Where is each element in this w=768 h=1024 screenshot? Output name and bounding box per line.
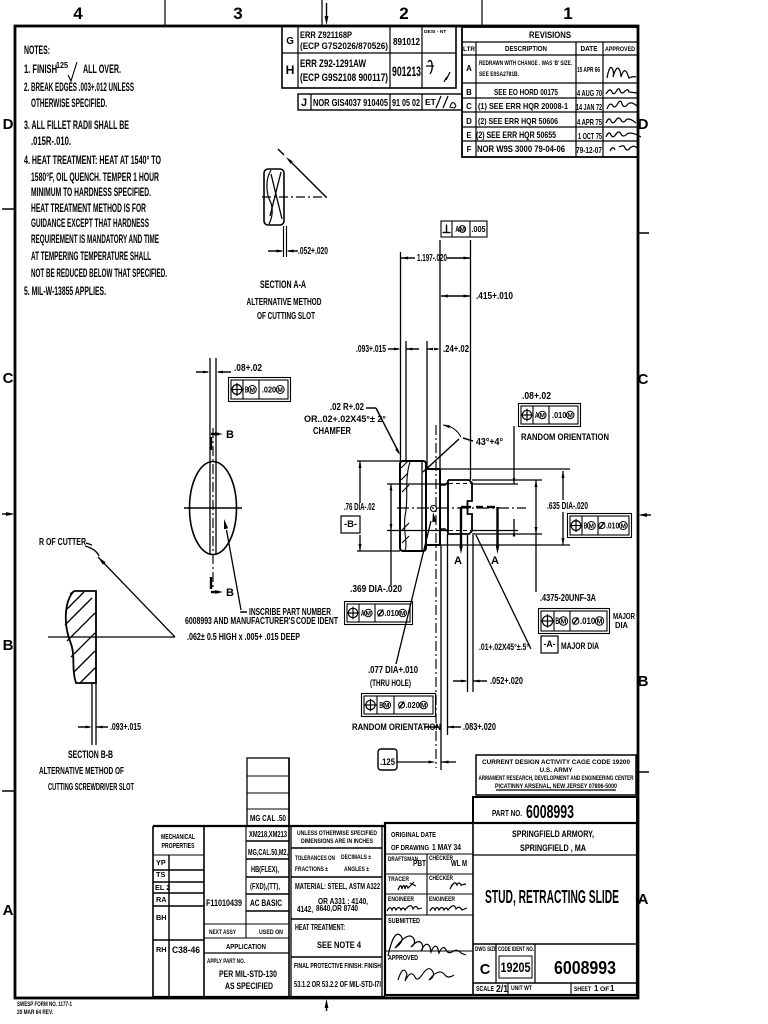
svg-text:.077 DIA+.010: .077 DIA+.010 (368, 665, 418, 676)
svg-text:APPLICATION: APPLICATION (226, 942, 266, 951)
svg-text:(FXD),(TT),: (FXD),(TT), (250, 881, 280, 891)
svg-text:DECIMALS ±: DECIMALS ± (341, 854, 371, 861)
svg-text:SEE EO HORD 00175: SEE EO HORD 00175 (494, 87, 558, 97)
svg-text:OR..02+.02X45°± 2°: OR..02+.02X45°± 2° (304, 414, 386, 424)
svg-text:(2) SEE ERR HQR 50655: (2) SEE ERR HQR 50655 (476, 130, 556, 140)
svg-text:.093+.015: .093+.015 (356, 344, 386, 355)
svg-text:SWESP FORM NO. 1177-1: SWESP FORM NO. 1177-1 (17, 1001, 72, 1008)
svg-text:B: B (584, 520, 588, 530)
svg-text:891012: 891012 (393, 37, 420, 48)
svg-text:1: 1 (563, 4, 572, 23)
svg-text:RANDOM ORIENTATION: RANDOM ORIENTATION (352, 722, 441, 732)
svg-text:2/1: 2/1 (496, 984, 508, 995)
svg-text:GUIDANCE EXCEPT THAT HARDNESS: GUIDANCE EXCEPT THAT HARDNESS (31, 217, 149, 230)
svg-text:.062± 0.5 HIGH x .005+ .015: .062± 0.5 HIGH x .005+ .015 DEEP (187, 632, 300, 643)
svg-text:B: B (226, 429, 234, 441)
svg-text:M: M (540, 412, 546, 419)
svg-text:MAJOR: MAJOR (613, 612, 635, 621)
svg-text:4 APR 75: 4 APR 75 (577, 117, 602, 127)
svg-text:ERR Z92-1291AW: ERR Z92-1291AW (300, 58, 366, 70)
svg-text:.052+.020: .052+.020 (490, 676, 523, 687)
svg-text:2: 2 (399, 4, 408, 23)
svg-text:ET: ET (425, 97, 437, 107)
svg-text:.01+.02X45°±.5°: .01+.02X45°±.5° (479, 642, 529, 652)
svg-text:53.1.2 OR 53.2.2 OF MIL-STD-I7: 53.1.2 OR 53.2.2 OF MIL-STD-I7I (294, 980, 381, 989)
svg-text:M: M (366, 610, 372, 617)
svg-text:.052+.020: .052+.020 (298, 246, 328, 257)
svg-text:MAJOR DIA: MAJOR DIA (561, 641, 599, 651)
svg-text:1. FINISH: 1. FINISH (24, 63, 57, 76)
svg-text:.02 R+.02: .02 R+.02 (330, 402, 364, 413)
svg-text:ARMAMENT RESEARCH, DEVELOPMENT: ARMAMENT RESEARCH, DEVELOPMENT AND ENGIN… (479, 775, 634, 782)
svg-text:4: 4 (73, 4, 83, 23)
svg-text:XM218,XM213: XM218,XM213 (249, 829, 287, 839)
svg-text:U.S. ARMY: U.S. ARMY (540, 767, 574, 774)
svg-text:M: M (400, 610, 406, 617)
svg-text:M: M (277, 387, 283, 394)
svg-text:DATE: DATE (581, 44, 598, 53)
svg-text:RH: RH (156, 945, 167, 954)
svg-text:PER MIL-STD-130: PER MIL-STD-130 (219, 969, 277, 979)
svg-text:.010: .010 (552, 410, 567, 420)
svg-text:MG CAL .50: MG CAL .50 (250, 813, 286, 823)
svg-text:CHAMFER: CHAMFER (313, 426, 351, 437)
svg-text:B: B (638, 673, 649, 690)
svg-text:19205: 19205 (501, 960, 531, 975)
svg-text:4. HEAT TREATMENT: HEAT AT 154: 4. HEAT TREATMENT: HEAT AT 1540° TO (24, 154, 161, 167)
svg-text:SECTION B-B: SECTION B-B (68, 749, 113, 761)
svg-text:FRACTIONS ±: FRACTIONS ± (295, 866, 328, 873)
svg-text:ENGINEER: ENGINEER (429, 896, 455, 903)
svg-text:NEXT ASSY: NEXT ASSY (209, 929, 236, 936)
svg-text:M: M (384, 702, 390, 709)
svg-text:RANDOM ORIENTATION: RANDOM ORIENTATION (521, 432, 609, 442)
svg-text:A: A (535, 410, 539, 420)
svg-text:J: J (301, 97, 307, 109)
svg-text:HEAT TREATMENT METHOD IS FOR: HEAT TREATMENT METHOD IS FOR (31, 202, 146, 215)
svg-text:TS: TS (156, 870, 165, 879)
svg-text:1: 1 (610, 984, 615, 993)
svg-text:AS SPECIFIED: AS SPECIFIED (225, 981, 273, 991)
svg-text:PICATINNY ARSENAL, NEW JERSEY: PICATINNY ARSENAL, NEW JERSEY 07806-5000 (495, 783, 617, 790)
svg-text:6008993: 6008993 (526, 801, 574, 822)
svg-text:ANGLES ±: ANGLES ± (344, 866, 369, 873)
svg-text:1: 1 (594, 984, 599, 993)
svg-text:CODE IDENT: CODE IDENT (296, 616, 338, 627)
svg-text:M: M (621, 523, 627, 530)
svg-text:.4375-20UNF-3A: .4375-20UNF-3A (540, 593, 596, 604)
svg-text:8640,OR 8740: 8640,OR 8740 (316, 903, 358, 913)
svg-text:UNLESS OTHERWISE SPECIFIED: UNLESS OTHERWISE SPECIFIED (297, 830, 377, 837)
svg-text:.093+.015: .093+.015 (110, 722, 141, 733)
svg-text:B: B (379, 700, 383, 710)
svg-text:SEE NOTE 4: SEE NOTE 4 (317, 940, 362, 950)
svg-text:6008993 AND MANUFACTURER'S: 6008993 AND MANUFACTURER'S (185, 616, 295, 627)
svg-text:.020: .020 (262, 384, 277, 394)
svg-text:YP: YP (156, 858, 166, 867)
svg-text:.005: .005 (471, 224, 486, 234)
svg-text:R OF CUTTER: R OF CUTTER (39, 537, 86, 548)
svg-text:USED ON: USED ON (259, 929, 283, 936)
svg-text:M: M (589, 523, 595, 530)
svg-text:.083+.020: .083+.020 (463, 722, 496, 733)
svg-text:D: D (466, 117, 472, 126)
svg-text:AT TEMPERING TEMPERATURE SHALL: AT TEMPERING TEMPERATURE SHALL (31, 250, 151, 263)
svg-text:B: B (3, 637, 14, 654)
svg-text:M: M (567, 412, 573, 419)
svg-text:.020: .020 (406, 700, 421, 710)
svg-text:ERR Z921168P: ERR Z921168P (300, 30, 352, 40)
svg-text:DESCRIPTION: DESCRIPTION (505, 44, 547, 53)
svg-text:C: C (638, 371, 649, 388)
svg-text:M: M (596, 616, 602, 625)
svg-text:MINIMUM TO HARDNESS SPECIFIED: MINIMUM TO HARDNESS SPECIFIED. (31, 186, 151, 199)
svg-text:F11010439: F11010439 (206, 898, 242, 908)
svg-text:CHECKER: CHECKER (429, 855, 453, 862)
svg-text:REQUIREMENT IS MANDATORY AND T: REQUIREMENT IS MANDATORY AND TIME (31, 233, 159, 246)
svg-text:2. BREAK EDGES .003+.012 UNLES: 2. BREAK EDGES .003+.012 UNLESS (24, 81, 134, 94)
svg-text:(2) SEE ERR HQR 50606: (2) SEE ERR HQR 50606 (478, 116, 558, 126)
svg-text:PART NO.: PART NO. (492, 808, 522, 818)
svg-text:-A-: -A- (544, 639, 556, 649)
svg-text:CURRENT DESIGN ACTIVITY CAGE C: CURRENT DESIGN ACTIVITY CAGE CODE 19200 (482, 759, 630, 766)
svg-text:APPLY PART NO.: APPLY PART NO. (207, 958, 245, 965)
svg-text:PROPERTIES: PROPERTIES (162, 841, 195, 850)
svg-text:AC BASIC: AC BASIC (250, 898, 282, 908)
svg-text:.010: .010 (385, 608, 400, 618)
svg-text:DESI - NT: DESI - NT (424, 29, 446, 35)
svg-text:.415+.010: .415+.010 (476, 291, 513, 302)
svg-text:A: A (638, 891, 649, 908)
svg-text:STUD, RETRACTING SLIDE: STUD, RETRACTING SLIDE (485, 887, 619, 908)
svg-text:WL M: WL M (451, 858, 467, 868)
svg-text:.369 DIA-.020: .369 DIA-.020 (350, 584, 402, 595)
svg-text:OF DRAWING: OF DRAWING (391, 843, 429, 852)
svg-text:.635 DIA-.020: .635 DIA-.020 (547, 501, 588, 512)
svg-text:-B-: -B- (344, 519, 357, 529)
svg-text:RA: RA (156, 895, 167, 904)
svg-text:M: M (560, 616, 566, 625)
svg-text:A: A (466, 64, 472, 73)
svg-text:NOTES:: NOTES: (24, 44, 50, 57)
svg-text:SEE E0SA2781B.: SEE E0SA2781B. (479, 71, 519, 78)
svg-text:3. ALL FILLET RADII SHALL BE: 3. ALL FILLET RADII SHALL BE (24, 119, 129, 132)
svg-text:20 MAR 64 REV.: 20 MAR 64 REV. (17, 1009, 53, 1016)
svg-text:TRACER: TRACER (388, 876, 409, 883)
svg-text:MECHANICAL: MECHANICAL (161, 832, 195, 841)
svg-text:ALL OVER.: ALL OVER. (83, 63, 121, 76)
svg-text:SPRINGFIELD ARMORY,: SPRINGFIELD ARMORY, (512, 829, 594, 839)
svg-text:SECTION A-A: SECTION A-A (260, 279, 306, 291)
svg-text:43°+4°: 43°+4° (476, 437, 503, 448)
svg-text:.76 DIA-.02: .76 DIA-.02 (344, 502, 375, 513)
svg-text:D: D (3, 116, 14, 133)
svg-text:1 OCT 75: 1 OCT 75 (578, 131, 602, 141)
svg-text:E: E (466, 131, 471, 140)
svg-text:ORIGINAL DATE: ORIGINAL DATE (391, 830, 436, 839)
svg-text:.125: .125 (380, 757, 395, 767)
svg-text:A: A (3, 902, 14, 919)
svg-text:HB(FLEX),: HB(FLEX), (251, 864, 279, 874)
svg-text:CHECKER: CHECKER (429, 875, 453, 882)
svg-text:F: F (467, 145, 472, 154)
svg-text:CODE IDENT NO.: CODE IDENT NO. (498, 946, 534, 953)
svg-text:ALTERNATIVE METHOD: ALTERNATIVE METHOD (247, 297, 322, 308)
svg-text:(1) SEE ERR HQR 20008-1: (1) SEE ERR HQR 20008-1 (478, 101, 568, 111)
svg-text:TOLERANCES ON: TOLERANCES ON (295, 855, 335, 862)
svg-text:DIA: DIA (615, 621, 628, 630)
svg-text:PBT: PBT (413, 858, 427, 868)
svg-text:(ECP G9S2108 900117): (ECP G9S2108 900117) (300, 72, 388, 84)
svg-text:.010: .010 (580, 616, 595, 626)
svg-text:M: M (250, 387, 256, 394)
svg-text:.015R-.010.: .015R-.010. (31, 135, 71, 148)
svg-text:OF: OF (600, 986, 609, 993)
svg-text:A: A (454, 555, 462, 567)
svg-text:REVISIONS: REVISIONS (529, 30, 571, 40)
svg-text:DIMENSIONS ARE IN INCHES: DIMENSIONS ARE IN INCHES (301, 838, 373, 845)
svg-text:1580°F, OIL QUENCH. TEMPER 1 H: 1580°F, OIL QUENCH. TEMPER 1 HOUR (31, 171, 159, 184)
svg-text:C: C (480, 962, 491, 978)
svg-text:B: B (245, 384, 249, 394)
svg-text:NOR W9S 3000 79-04-06: NOR W9S 3000 79-04-06 (477, 144, 565, 154)
svg-text:OF CUTTING SLOT: OF CUTTING SLOT (257, 311, 315, 322)
svg-text:C: C (3, 370, 14, 387)
svg-text:G: G (286, 36, 294, 47)
svg-text:NOR GIS4037 910405: NOR GIS4037 910405 (313, 98, 388, 109)
svg-text:REDRAWN WITH CHANGE . WAS 'B': REDRAWN WITH CHANGE . WAS 'B' SIZE. (479, 60, 572, 67)
svg-text:FINAL PROTECTIVE FINISH: FINIS: FINAL PROTECTIVE FINISH: FINISH (294, 961, 381, 970)
svg-text:SCALE: SCALE (476, 984, 494, 993)
svg-text:.24+.02: .24+.02 (443, 344, 469, 355)
svg-text:3: 3 (233, 4, 242, 23)
svg-text:91 05 02: 91 05 02 (392, 98, 420, 109)
svg-text:SHEET: SHEET (574, 986, 592, 993)
svg-text:MG,CAL.50,M2,: MG,CAL.50,M2, (248, 847, 288, 857)
svg-text:HEAT TREATMENT:: HEAT TREATMENT: (295, 923, 345, 932)
svg-text:CUTTING SCREWDRIVER SLOT: CUTTING SCREWDRIVER SLOT (48, 782, 134, 793)
svg-text:UNIT WT: UNIT WT (511, 985, 533, 992)
svg-text:OTHERWISE SPECIFIED.: OTHERWISE SPECIFIED. (31, 97, 107, 110)
svg-text:DWG SIZE: DWG SIZE (475, 946, 497, 953)
svg-text:H: H (286, 63, 295, 77)
svg-text:A: A (361, 608, 365, 618)
svg-text:.010: .010 (606, 520, 619, 530)
svg-text:NOT BE REDUCED BELOW THAT SPEC: NOT BE REDUCED BELOW THAT SPECIFIED. (31, 267, 167, 280)
svg-text:SUBMITTED: SUBMITTED (388, 916, 420, 925)
svg-text:ENGINEER: ENGINEER (388, 896, 414, 903)
svg-text:APPROVED: APPROVED (388, 953, 418, 962)
svg-text:M: M (460, 226, 466, 233)
svg-text:4 AUG 70: 4 AUG 70 (577, 88, 602, 98)
svg-text:.08+.02: .08+.02 (522, 391, 551, 402)
svg-text:(THRU HOLE): (THRU HOLE) (370, 678, 411, 688)
svg-text:ALTERNATIVE METHOD OF: ALTERNATIVE METHOD OF (39, 766, 124, 777)
svg-text:APPROVED: APPROVED (605, 46, 635, 53)
svg-text:125: 125 (56, 60, 68, 70)
svg-text:A: A (491, 555, 499, 567)
svg-text:901213: 901213 (392, 64, 421, 79)
svg-text:B: B (466, 88, 472, 97)
svg-text:4142,: 4142, (297, 904, 313, 914)
svg-text:M: M (421, 702, 427, 709)
svg-text:.08+.02: .08+.02 (234, 363, 262, 374)
svg-text:(ECP G7S2026/870526): (ECP G7S2026/870526) (300, 41, 388, 51)
svg-text:1.197-.020: 1.197-.020 (417, 253, 447, 264)
svg-text:C: C (466, 102, 472, 111)
svg-text:C38-46: C38-46 (172, 945, 200, 955)
svg-text:6008993: 6008993 (554, 957, 616, 978)
svg-text:EL 2: EL 2 (155, 883, 170, 892)
svg-text:1 MAY 34: 1 MAY 34 (432, 842, 461, 852)
svg-text:LTR: LTR (463, 46, 475, 53)
svg-text:SPRINGFIELD , MA: SPRINGFIELD , MA (520, 843, 586, 853)
svg-text:D: D (638, 116, 649, 133)
svg-text:79-12-07: 79-12-07 (576, 145, 602, 155)
svg-text:5. MIL-W-13855 APPLIES.: 5. MIL-W-13855 APPLIES. (24, 285, 106, 298)
svg-text:15 APR 66: 15 APR 66 (577, 65, 600, 74)
svg-text:BH: BH (156, 913, 167, 922)
svg-text:B: B (226, 587, 234, 599)
svg-text:14 JAN 72: 14 JAN 72 (576, 102, 602, 112)
svg-text:MATERIAL: STEEL, ASTM A322: MATERIAL: STEEL, ASTM A322 (295, 881, 380, 891)
